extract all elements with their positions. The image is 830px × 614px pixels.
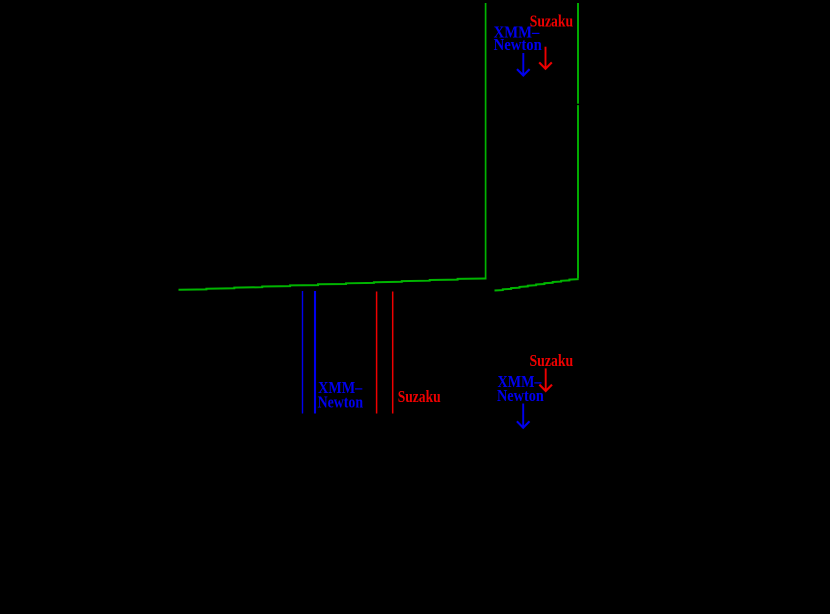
svg-text:Newton: Newton (494, 35, 543, 54)
svg-text:Suzaku: Suzaku (530, 351, 574, 370)
svg-text:Newton: Newton (318, 393, 364, 412)
svg-text:Newton: Newton (497, 386, 544, 405)
svg-text:Suzaku: Suzaku (398, 387, 441, 406)
